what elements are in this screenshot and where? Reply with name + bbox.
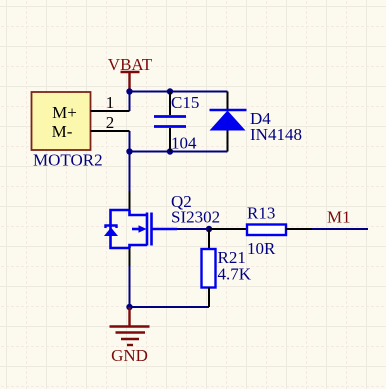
pin 2 (M-) <box>91 113 130 132</box>
svg-text:SI2302: SI2302 <box>171 208 220 227</box>
wire pin2 down to drain rail <box>129 131 131 152</box>
source corner <box>130 245 148 248</box>
junction node drain rail / C15 <box>167 148 173 154</box>
svg-text:4.7K: 4.7K <box>218 265 252 284</box>
wire Q2 source to bottom rail <box>129 266 131 307</box>
channel line <box>146 213 149 246</box>
gate line <box>150 213 153 246</box>
bulk stub with arrow <box>132 228 140 231</box>
resistor R13 <box>209 204 312 259</box>
junction node gate/R13/R21 <box>206 226 212 232</box>
body diode cathode bar <box>106 226 117 229</box>
junction node drain rail left <box>126 148 132 154</box>
junction node source/GND <box>126 304 132 310</box>
svg-text:10R: 10R <box>247 239 276 258</box>
source pin <box>129 248 131 266</box>
junction node VBAT/pin1 <box>126 88 132 94</box>
transistor Q2 SI2302 MOSFET <box>104 191 220 266</box>
diode D4 IN4148 <box>210 92 302 152</box>
gate lead <box>152 228 178 231</box>
svg-text:GND: GND <box>111 346 148 365</box>
wire drain rail <box>130 151 228 153</box>
svg-text:R13: R13 <box>247 204 275 223</box>
wire top rail VBAT net <box>130 91 228 93</box>
svg-text:1: 1 <box>106 93 115 112</box>
svg-text:104: 104 <box>171 134 197 153</box>
drain corner <box>130 210 148 215</box>
power port VBAT <box>108 55 153 92</box>
wire R13 to M1 <box>312 228 368 230</box>
wire bottom rail to R21 <box>130 306 210 308</box>
junction node VBAT/C15 <box>167 88 173 94</box>
wire VBAT to pin1 <box>129 92 131 112</box>
svg-text:M-: M- <box>52 122 73 141</box>
capacitor C15 <box>154 92 199 153</box>
svg-text:C15: C15 <box>171 93 199 112</box>
resistor R21 <box>202 229 252 307</box>
connector MOTOR2 body <box>32 92 103 170</box>
ground <box>110 307 150 365</box>
pin 1 (M+) <box>91 93 130 112</box>
svg-text:MOTOR2: MOTOR2 <box>33 151 103 170</box>
drain pin <box>129 191 131 210</box>
svg-text:M+: M+ <box>52 103 77 122</box>
body diode loop <box>111 210 130 248</box>
svg-text:IN4148: IN4148 <box>250 125 302 144</box>
wire drain rail to Q2 drain <box>129 152 131 192</box>
wire gate to junction <box>177 228 209 230</box>
body diode triangle <box>104 228 118 237</box>
svg-text:2: 2 <box>106 113 115 132</box>
svg-text:M1: M1 <box>327 208 351 227</box>
